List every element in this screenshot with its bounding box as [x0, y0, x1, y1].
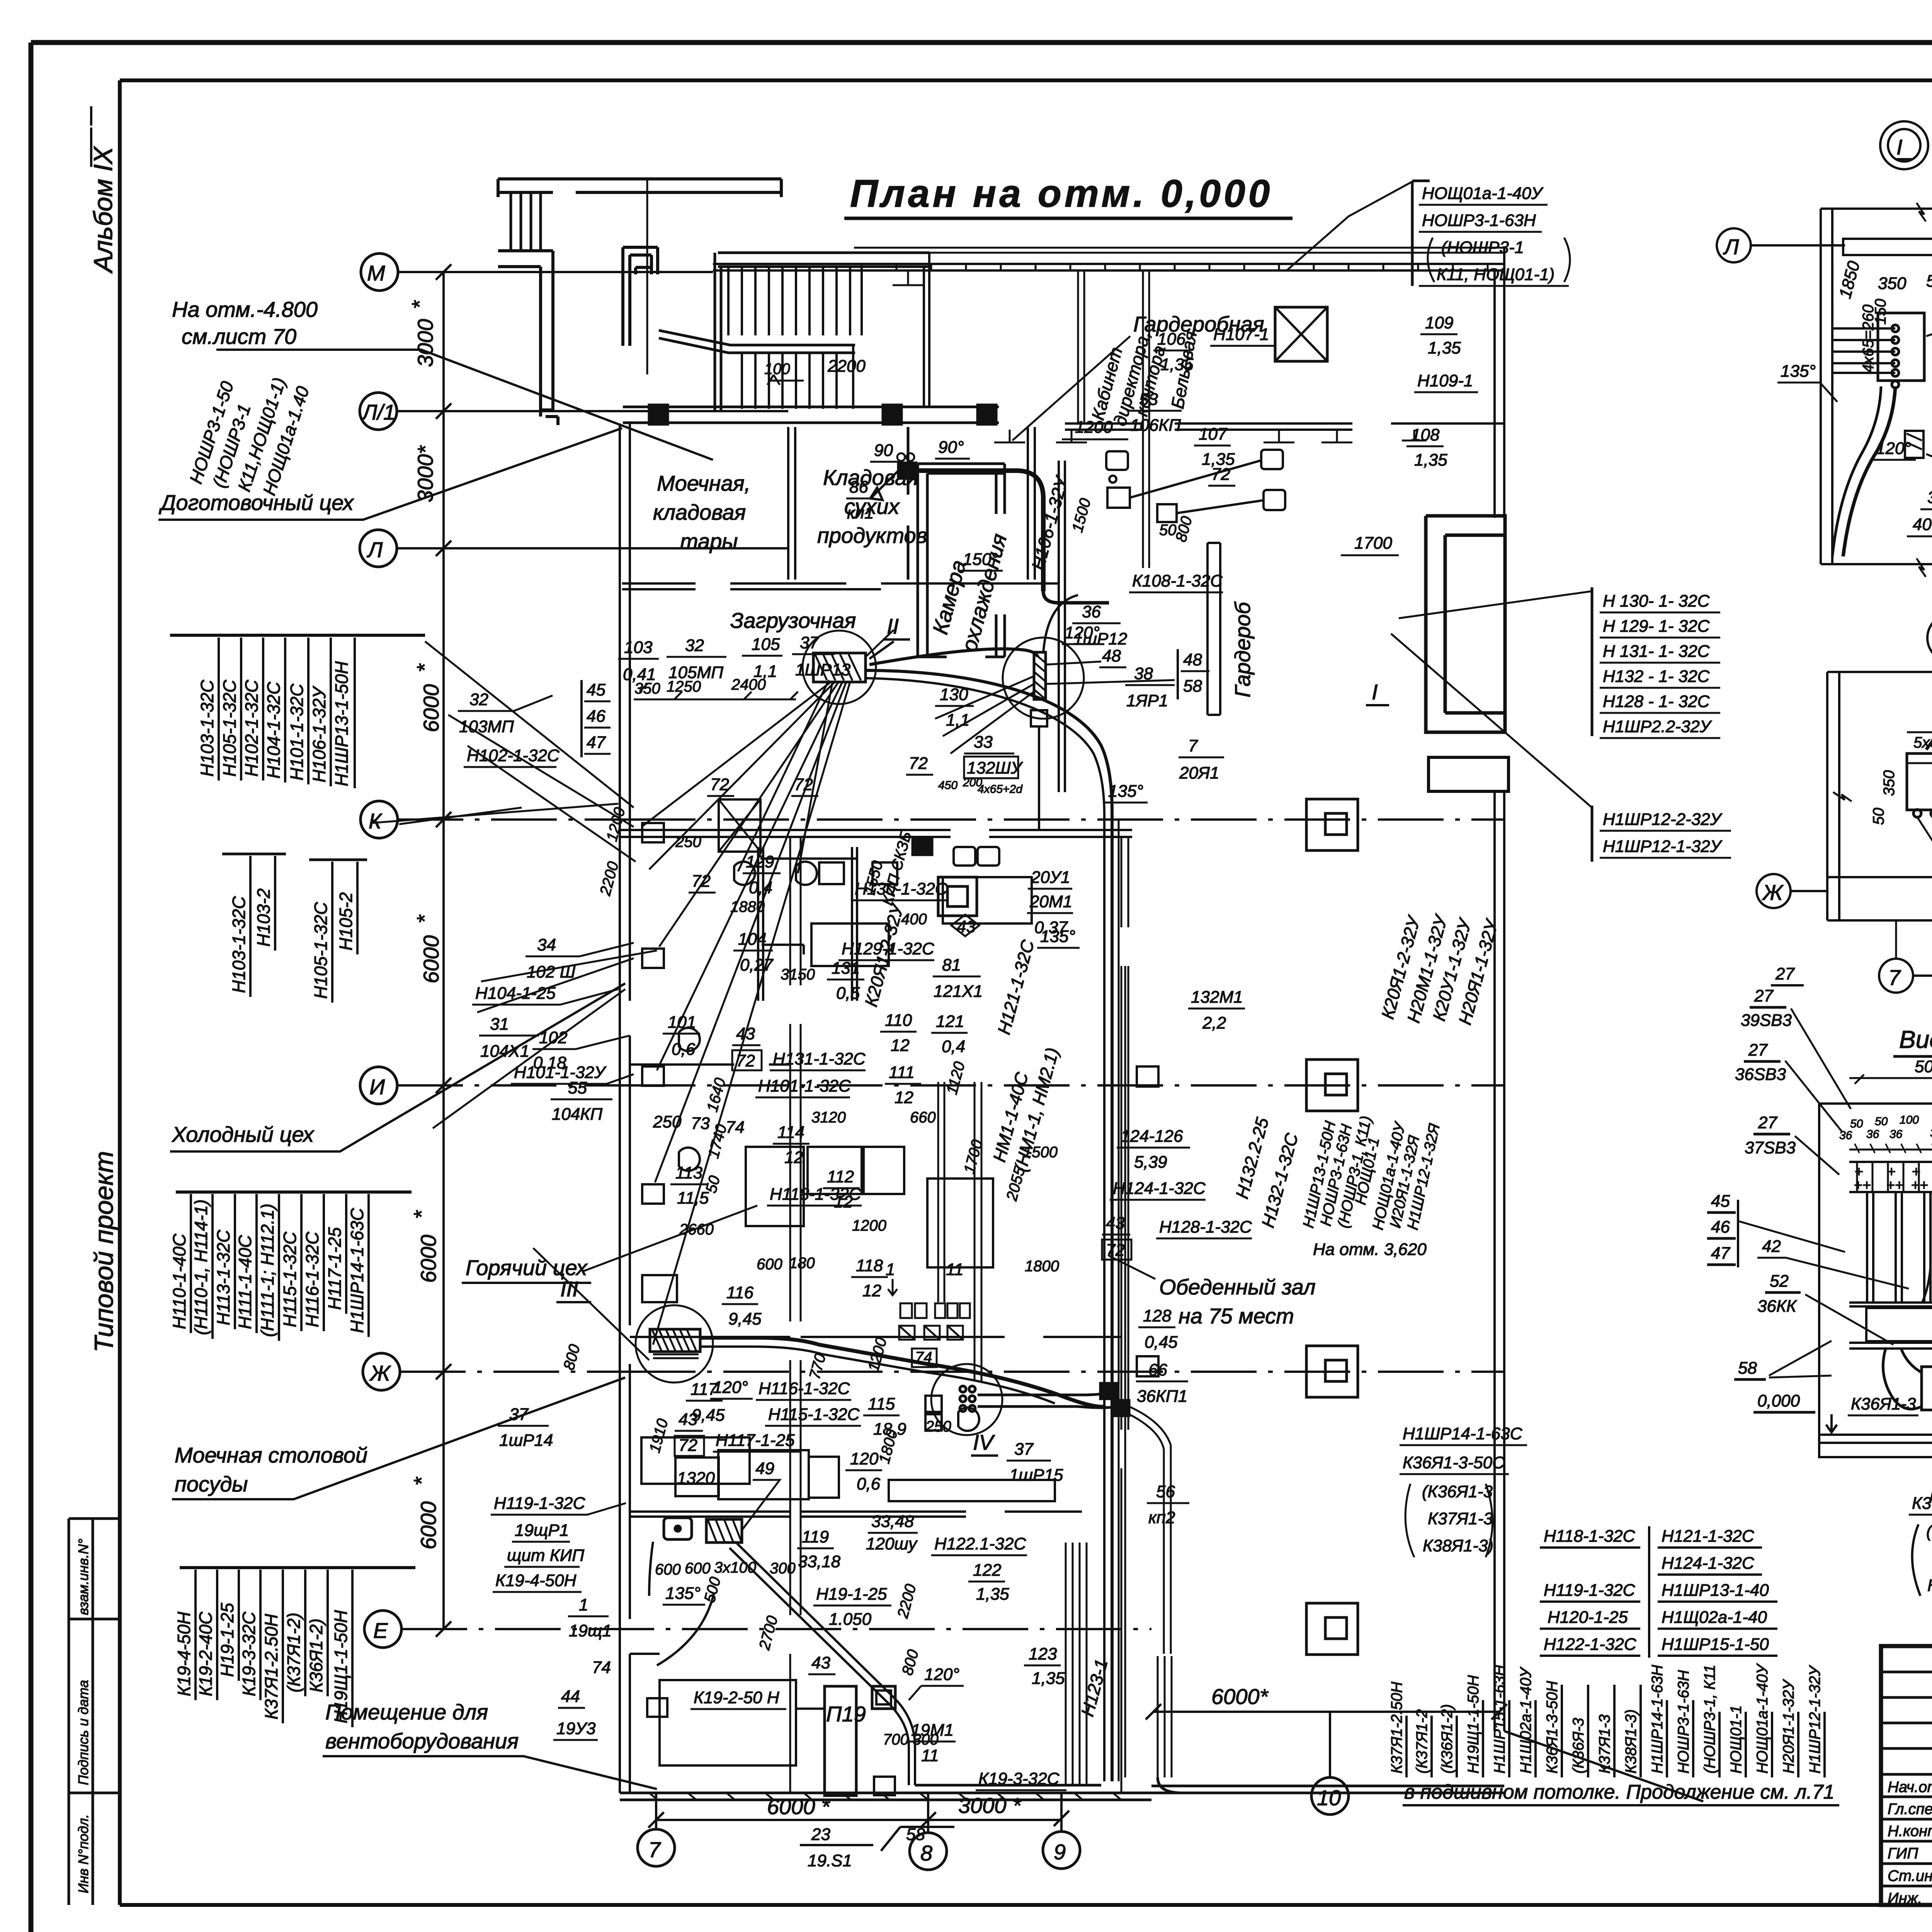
svg-text:700: 700: [883, 1731, 909, 1748]
svg-text:600: 600: [685, 1560, 711, 1577]
svg-text:К36Я1-3-50С: К36Я1-3-50С: [1403, 1453, 1505, 1472]
garderob counter: [1207, 543, 1220, 715]
svg-text:114: 114: [777, 1123, 804, 1142]
svg-text:5,39: 5,39: [1134, 1153, 1167, 1172]
svg-text:73: 73: [691, 1114, 710, 1133]
vid ground lines: [1819, 1435, 1932, 1443]
dim line 9-10: [1153, 1711, 1499, 1713]
svg-text:300: 300: [770, 1560, 796, 1577]
svg-text:Н1ШР13-1-40: Н1ШР13-1-40: [1662, 1581, 1769, 1600]
svg-text:ГИП: ГИП: [1888, 1845, 1918, 1862]
device 20M1: [938, 877, 977, 916]
svg-text:102: 102: [539, 1028, 567, 1047]
upper rooms partition C: [1028, 427, 1035, 580]
svg-text:135°: 135°: [1108, 782, 1143, 801]
svg-text:135°: 135°: [665, 1584, 701, 1603]
svg-text:6000: 6000: [419, 684, 443, 732]
svg-text:К38Я1-3): К38Я1-3): [1927, 1576, 1932, 1595]
svg-text:Ж: Ж: [369, 1361, 391, 1385]
svg-text:104: 104: [738, 930, 766, 949]
svg-text:Е: Е: [373, 1618, 388, 1643]
svg-text:6000: 6000: [419, 935, 443, 983]
svg-text:180: 180: [789, 1255, 815, 1272]
svg-text:113: 113: [675, 1163, 703, 1182]
svg-text:36КП1: 36КП1: [1137, 1387, 1187, 1406]
cable drop arrows at kp1: [870, 471, 898, 500]
svg-text:Н118-1-32С: Н118-1-32С: [1544, 1527, 1636, 1546]
svg-text:12: 12: [895, 1088, 913, 1107]
DETAILS: [1717, 121, 1932, 993]
svg-text:щит КИП: щит КИП: [507, 1546, 584, 1565]
equipment kitchen mid: [641, 1437, 750, 1484]
svg-text:План на отм. 0,000: План на отм. 0,000: [850, 172, 1273, 215]
svg-text:И: И: [369, 1075, 385, 1099]
svg-text:(НОШР3-1, К11: (НОШР3-1, К11: [1701, 1665, 1718, 1774]
wall under top rooms: [1065, 423, 1504, 430]
node I panel: [1034, 652, 1046, 699]
svg-text:(К37Я1-2: (К37Я1-2: [1413, 1709, 1430, 1774]
cable to node I: [869, 649, 1038, 665]
wall below stairs: [623, 407, 999, 423]
vent room equipment P19: [825, 1686, 856, 1796]
svg-text:135°: 135°: [1781, 362, 1816, 381]
svg-text:120шу: 120шу: [866, 1534, 918, 1553]
svg-text:250: 250: [675, 833, 701, 850]
svg-text:Помещение для: Помещение для: [325, 1700, 488, 1724]
svg-text:1200: 1200: [1075, 418, 1113, 437]
svg-text:5х65=325: 5х65=325: [1913, 734, 1932, 751]
corridor wall right of cold room: [1059, 461, 1065, 792]
kitchen partition goryachiy: [630, 1336, 1121, 1338]
svg-text:19М1: 19М1: [911, 1721, 954, 1740]
table RT3 top: [1412, 181, 1430, 286]
svg-text:1,35: 1,35: [1032, 1669, 1065, 1688]
junction small boxes at left wall: [642, 823, 664, 842]
svg-text:Н103-1-32С: Н103-1-32С: [229, 896, 249, 993]
luminaire symbols: [679, 862, 979, 1431]
svg-text:Н113-1-32С: Н113-1-32С: [213, 1230, 233, 1325]
P-stub wall: [623, 247, 658, 346]
svg-text:Н115-1-32С: Н115-1-32С: [280, 1231, 300, 1327]
svg-text:0,5: 0,5: [836, 984, 860, 1003]
svg-text:350: 350: [634, 680, 660, 697]
svg-text:58: 58: [906, 1825, 925, 1844]
zagruzochnaya south wall: [620, 830, 1132, 837]
AXES: [360, 253, 1507, 1870]
svg-text:К36Я1-2): К36Я1-2): [306, 1619, 326, 1692]
svg-text:43: 43: [679, 1410, 697, 1429]
staircase upper flight treads: [728, 267, 862, 335]
svg-text:++: ++: [1854, 1177, 1871, 1194]
svg-text:350: 350: [1878, 274, 1906, 293]
staircase landing slab: [715, 253, 929, 411]
svg-text:118: 118: [856, 1256, 883, 1275]
top rooms partition belyevaya: [1143, 270, 1149, 568]
svg-text:32: 32: [685, 636, 704, 655]
svg-text:Н119-1-32С: Н119-1-32С: [1544, 1581, 1636, 1600]
svg-text:9,45: 9,45: [728, 1310, 762, 1328]
svg-text:К38Я1-3): К38Я1-3): [1622, 1709, 1639, 1774]
axis L: [360, 530, 397, 567]
svg-text:100: 100: [1900, 1114, 1919, 1126]
svg-text:106КП: 106КП: [1130, 416, 1181, 435]
svg-text:111: 111: [889, 1063, 915, 1082]
svg-text:400: 400: [1913, 515, 1932, 534]
svg-text:19щР1: 19щР1: [515, 1521, 569, 1540]
axis K: [361, 801, 398, 838]
junction kp1: [898, 463, 916, 478]
svg-text:Н128 - 1- 32С: Н128 - 1- 32С: [1603, 692, 1710, 711]
svg-text:Н19Щ1-1-50Н: Н19Щ1-1-50Н: [1465, 1675, 1482, 1774]
detail III hatch cables above: [1926, 721, 1932, 750]
VID11: [1707, 986, 1932, 1596]
svg-text:НОШР3-1-63Н: НОШР3-1-63Н: [1422, 211, 1536, 230]
svg-text:37SВ3: 37SВ3: [1745, 1138, 1796, 1157]
upper window band wall: [854, 248, 1504, 253]
leaders to hot shop: [533, 1206, 757, 1360]
svg-text:К108-1-32С: К108-1-32С: [1132, 571, 1223, 590]
svg-text:1ШР13: 1ШР13: [795, 660, 851, 679]
svg-text:Вид 1-1: Вид 1-1: [1899, 1026, 1932, 1053]
upper rooms partition A: [788, 427, 795, 580]
svg-text:Доготовочный цех: Доготовочный цех: [158, 490, 354, 515]
axis M: [361, 253, 398, 291]
svg-text:27: 27: [1748, 1041, 1768, 1060]
svg-text:К38Я1-3): К38Я1-3): [1423, 1536, 1493, 1555]
svg-text:Л: Л: [1723, 235, 1739, 259]
svg-text:Типовой проект: Типовой проект: [89, 1151, 119, 1352]
svg-text:43: 43: [1106, 1214, 1125, 1233]
column I: [1306, 1060, 1358, 1111]
svg-text:100: 100: [764, 361, 790, 378]
svg-text:6000 *: 6000 *: [767, 1794, 830, 1819]
PLANLABELS: [458, 312, 1527, 1790]
top slab band: [498, 179, 781, 197]
svg-text:I: I: [1896, 135, 1903, 159]
svg-text:продуктов: продуктов: [817, 523, 927, 548]
vid bottom bands: [1849, 1303, 1932, 1349]
svg-text:19щ1: 19щ1: [569, 1621, 612, 1640]
svg-text:12: 12: [891, 1036, 910, 1055]
dim row under zagruzochnaya: [634, 684, 798, 699]
svg-text:1,35: 1,35: [1160, 355, 1194, 374]
svg-text:(К36Я1-2): (К36Я1-2): [1439, 1704, 1456, 1774]
svg-text:46: 46: [587, 707, 605, 726]
svg-text:107: 107: [1199, 425, 1228, 444]
svg-text:11: 11: [921, 1746, 939, 1765]
svg-text:108: 108: [1411, 425, 1440, 444]
svg-text:6000*: 6000*: [1211, 1684, 1269, 1709]
LEFTTABLES: [158, 95, 713, 1789]
svg-text:Н19-1-25: Н19-1-25: [816, 1585, 887, 1604]
svg-text:Н1Щ02а-1-40У: Н1Щ02а-1-40У: [1517, 1667, 1534, 1774]
double diagonal cable from E node: [730, 1543, 915, 1785]
bottom dim line 7-9: [656, 1819, 1061, 1821]
bottom exterior wall: [620, 1786, 1504, 1800]
svg-text:К37Я1-3: К37Я1-3: [1428, 1509, 1493, 1528]
svg-text:вентоборудования: вентоборудования: [325, 1729, 519, 1753]
svg-text:74: 74: [915, 1349, 932, 1366]
svg-text:48: 48: [1183, 650, 1202, 669]
svg-text:Н101-1-32У: Н101-1-32У: [514, 1063, 607, 1082]
svg-text:0,6: 0,6: [857, 1475, 881, 1493]
svg-text:250: 250: [925, 1418, 951, 1435]
svg-text:Ст.инж.: Ст.инж.: [1888, 1867, 1932, 1884]
svg-text:Н104-1-25: Н104-1-25: [475, 984, 556, 1003]
svg-text:1шР15: 1шР15: [1009, 1466, 1063, 1485]
svg-text:1700: 1700: [1354, 534, 1392, 553]
svg-text:Н109-1: Н109-1: [1417, 371, 1473, 390]
axis7 thin line upper: [646, 180, 648, 374]
svg-text:К19-3-32С: К19-3-32С: [978, 1769, 1060, 1788]
svg-text:11,5: 11,5: [677, 1189, 709, 1207]
svg-text:1.050: 1.050: [829, 1610, 872, 1629]
svg-text:72: 72: [909, 754, 928, 773]
svg-text:Н1ШР15-1-63Н: Н1ШР15-1-63Н: [1491, 1665, 1508, 1774]
svg-text:50: 50: [1875, 1115, 1888, 1128]
node IV boxes: [925, 1396, 942, 1412]
building right wall lower: [1495, 791, 1504, 1731]
svg-text:Н1ШР14-1-63Н: Н1ШР14-1-63Н: [1649, 1665, 1666, 1774]
kitchen partition holodny: [630, 1063, 790, 1066]
svg-text:Подпись и дата: Подпись и дата: [75, 1680, 91, 1785]
svg-text:2660: 2660: [679, 1221, 714, 1238]
svg-text:19.S1: 19.S1: [808, 1851, 852, 1870]
axis I: [360, 1067, 397, 1104]
detail I break marks: [1917, 203, 1926, 577]
svg-text:109: 109: [1425, 313, 1453, 332]
svg-text:72: 72: [1211, 465, 1230, 484]
svg-text:К19-2-40С: К19-2-40С: [196, 1611, 216, 1696]
staircase lower flight treads: [742, 346, 853, 409]
svg-text:НОЩ01а-1-40У: НОЩ01а-1-40У: [1754, 1663, 1771, 1774]
svg-text:47: 47: [1711, 1244, 1730, 1263]
svg-text:0,4: 0,4: [749, 878, 772, 897]
svg-text:119: 119: [802, 1527, 829, 1546]
svg-text:Н117-1-25: Н117-1-25: [716, 1431, 795, 1450]
table RT2: [1591, 806, 1594, 862]
svg-text:Н103-1-32С: Н103-1-32С: [197, 680, 217, 777]
svg-text:32: 32: [469, 690, 488, 709]
bottom axis 9: [1043, 1832, 1080, 1869]
detail I panel: [1878, 313, 1924, 381]
svg-text:0,000: 0,000: [1757, 1391, 1800, 1410]
svg-text:103МП: 103МП: [459, 717, 514, 736]
svg-text:К37Я1-2.50Н: К37Я1-2.50Н: [261, 1614, 281, 1719]
table T2: [222, 853, 286, 855]
svg-text:см.лист 70: см.лист 70: [182, 324, 296, 349]
axis E: [364, 1611, 401, 1648]
table T5: [180, 1566, 415, 1569]
detail I walls: [1821, 209, 1932, 564]
svg-text:36КК: 36КК: [1757, 1297, 1797, 1316]
svg-text:600: 600: [655, 1561, 681, 1578]
bundle join bottom: [915, 1777, 1182, 1793]
svg-text:Н101-1-32С: Н101-1-32С: [758, 1077, 851, 1095]
svg-text:36: 36: [1889, 1128, 1903, 1141]
svg-text:56: 56: [1156, 1482, 1175, 1501]
svg-text:НОЩ01а-1-40У: НОЩ01а-1-40У: [1422, 184, 1544, 203]
svg-text:Н122-1-32С: Н122-1-32С: [1544, 1635, 1637, 1654]
svg-text:Н 129- 1- 32С: Н 129- 1- 32С: [1603, 617, 1710, 636]
MARGIN: [69, 106, 120, 1905]
svg-text:Н 131- 1- 32С: Н 131- 1- 32С: [1603, 642, 1710, 661]
svg-text:1,35: 1,35: [976, 1585, 1009, 1604]
svg-text:19У3: 19У3: [556, 1719, 596, 1738]
svg-text:36SВ3: 36SВ3: [1735, 1065, 1786, 1084]
column Zh: [1306, 1346, 1358, 1397]
column K: [1306, 799, 1358, 850]
svg-text:20М1: 20М1: [1029, 892, 1072, 911]
svg-text:23: 23: [811, 1825, 830, 1844]
svg-text:Горячий цех: Горячий цех: [466, 1255, 588, 1280]
svg-text:43: 43: [957, 917, 976, 936]
svg-text:9: 9: [1054, 1840, 1066, 1864]
svg-text:Н128-1-32С: Н128-1-32С: [1159, 1218, 1252, 1236]
svg-text:1: 1: [886, 1260, 895, 1279]
svg-text:в подшивном потолке. Продолжен: в подшивном потолке. Продолжение см. л.7…: [1404, 1781, 1835, 1803]
svg-text:3000: 3000: [413, 319, 437, 367]
svg-text:128: 128: [1143, 1306, 1172, 1325]
staircase right landing edge: [924, 253, 929, 407]
TITLE: [844, 172, 1293, 218]
svg-text:58: 58: [1738, 1359, 1757, 1378]
svg-text:(Н111-1; Н112.1): (Н111-1; Н112.1): [257, 1204, 277, 1337]
svg-text:на 75 мест: на 75 мест: [1179, 1304, 1294, 1328]
svg-text:12: 12: [784, 1148, 803, 1167]
svg-text:53: 53: [1139, 390, 1158, 409]
svg-text:Инв N°подл.: Инв N°подл.: [75, 1814, 91, 1893]
vid bottom unit: [1922, 1367, 1932, 1410]
svg-text:0,4: 0,4: [942, 1037, 965, 1056]
svg-text:33,48: 33,48: [871, 1512, 914, 1531]
svg-text:31: 31: [490, 1015, 509, 1034]
svg-text:Н1ШР14-1-63С: Н1ШР14-1-63С: [347, 1208, 367, 1333]
svg-text:1шР14: 1шР14: [499, 1431, 553, 1450]
svg-text:120: 120: [850, 1449, 879, 1468]
svg-text:Н102-1-32С: Н102-1-32С: [241, 680, 262, 777]
svg-text:тары: тары: [680, 529, 738, 553]
vid tick row: [1857, 1162, 1932, 1192]
cable run from kp1: [916, 471, 1043, 591]
svg-text:123: 123: [1029, 1645, 1057, 1663]
svg-text:Н1ШР12-2-32У: Н1ШР12-2-32У: [1603, 810, 1723, 829]
svg-text:III: III: [560, 1277, 578, 1301]
window sill marks under wall: [893, 270, 1427, 442]
svg-text:1320: 1320: [677, 1469, 715, 1488]
svg-text:Н129-1-32С: Н129-1-32С: [842, 939, 935, 958]
vertical bundle x2670: [1066, 1543, 1172, 1785]
svg-text:Н 130- 1- 32С: Н 130- 1- 32С: [1603, 592, 1710, 611]
bottom wall hatch ticks: [649, 1793, 1121, 1800]
svg-text:Н106-1-32У: Н106-1-32У: [309, 685, 329, 782]
svg-text:90: 90: [874, 441, 893, 460]
svg-text:120°: 120°: [1876, 439, 1911, 458]
svg-text:Инж.: Инж.: [1888, 1890, 1922, 1907]
svg-text:105: 105: [752, 635, 780, 654]
kitchen partition vent room: [630, 1512, 1082, 1654]
svg-text:43: 43: [736, 1024, 755, 1043]
svg-text:Н110-1-40С: Н110-1-40С: [169, 1233, 189, 1329]
column E: [1306, 1603, 1358, 1655]
svg-text:1250: 1250: [667, 678, 701, 695]
svg-text:1500: 1500: [1023, 1144, 1058, 1161]
svg-text:37: 37: [800, 633, 819, 652]
svg-text:36: 36: [1082, 602, 1101, 621]
detail I curve 135: [1843, 386, 1895, 556]
svg-text:72: 72: [1106, 1241, 1125, 1260]
svg-text:112: 112: [827, 1167, 854, 1186]
svg-text:6000: 6000: [416, 1235, 440, 1283]
svg-text:Моечная столовой: Моечная столовой: [175, 1443, 367, 1467]
PLANWALLS: [498, 179, 1509, 1800]
svg-text:К19-4-50Н: К19-4-50Н: [495, 1571, 577, 1590]
svg-text:К36Я1-3-50С: К36Я1-3-50С: [1912, 1494, 1932, 1513]
svg-text:4х65+2d: 4х65+2d: [978, 783, 1023, 796]
svg-text:На отм. 3,620: На отм. 3,620: [1313, 1240, 1427, 1259]
svg-text:Н121-1-32С: Н121-1-32С: [1662, 1527, 1755, 1546]
detail III cable fan: [1917, 817, 1932, 885]
svg-text:++: ++: [1886, 1177, 1903, 1194]
bottom devices: [647, 1698, 667, 1717]
svg-text:39SВ3: 39SВ3: [1741, 1011, 1792, 1030]
svg-text:(К36Я-3: (К36Я-3: [1570, 1718, 1587, 1774]
svg-text:132ШУ: 132ШУ: [967, 759, 1023, 777]
svg-text:Н.контр.: Н.контр.: [1888, 1823, 1932, 1840]
svg-text:*: *: [409, 1210, 434, 1219]
svg-text:115: 115: [868, 1395, 895, 1413]
svg-text:130: 130: [940, 685, 968, 704]
wall under upper rooms: [622, 583, 1059, 589]
svg-text:Н124-1-32С: Н124-1-32С: [1662, 1554, 1755, 1573]
svg-text:33,18: 33,18: [798, 1552, 841, 1571]
CABLES: [371, 453, 1182, 1795]
svg-text:Н122.1-32С: Н122.1-32С: [934, 1534, 1026, 1553]
detail III axes 7 8: [1879, 959, 1913, 993]
label 48 58 stack: [1177, 649, 1179, 699]
svg-text:102 Ш: 102 Ш: [527, 963, 576, 981]
svg-text:Н1ШР12-1-32У: Н1ШР12-1-32У: [1603, 837, 1723, 856]
label 1320 box: [675, 1458, 719, 1496]
svg-text:К36Я1-3: К36Я1-3: [1851, 1395, 1916, 1413]
svg-text:106: 106: [1157, 330, 1186, 349]
svg-text:81: 81: [942, 956, 961, 975]
svg-text:НОШР3-1-63Н: НОШР3-1-63Н: [1675, 1670, 1692, 1774]
svg-text:Н1Щ02а-1-40: Н1Щ02а-1-40: [1662, 1608, 1767, 1627]
leader from II label: [866, 630, 894, 657]
svg-text:8: 8: [920, 1841, 932, 1865]
svg-text:Н1ШР15-1-50: Н1ШР15-1-50: [1662, 1635, 1769, 1654]
svg-text:К11, НОЩ01-1): К11, НОЩ01-1): [1437, 265, 1554, 284]
svg-text:46: 46: [1711, 1218, 1730, 1236]
vid cable columns: [1867, 1192, 1932, 1302]
small devices row at II: [872, 862, 897, 884]
svg-text:37: 37: [1014, 1440, 1034, 1459]
svg-text:7: 7: [1188, 736, 1198, 755]
svg-text:36: 36: [1866, 1128, 1879, 1141]
svg-text:Н101-1-32С: Н101-1-32С: [287, 684, 307, 781]
axis Zh: [363, 1353, 400, 1390]
building left wall: [620, 423, 630, 1793]
svg-text:Н1ШР13-1-50Н: Н1ШР13-1-50Н: [332, 661, 352, 786]
node I lower box: [1031, 710, 1047, 726]
svg-text:К19-3-32С: К19-3-32С: [239, 1611, 259, 1696]
building right wall upper: [1495, 248, 1504, 518]
svg-text:посуды: посуды: [175, 1472, 248, 1496]
svg-text:121: 121: [936, 1012, 964, 1031]
svg-text:44: 44: [561, 1687, 580, 1706]
svg-text:110: 110: [885, 1011, 912, 1030]
